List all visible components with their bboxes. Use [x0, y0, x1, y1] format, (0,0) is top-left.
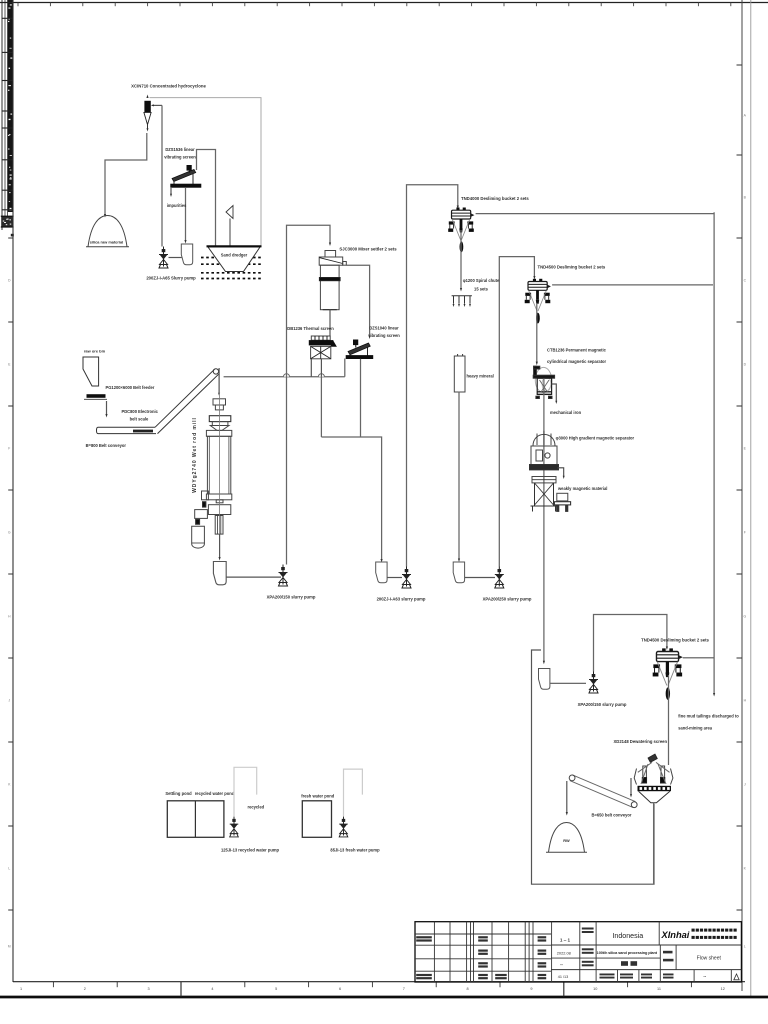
svg-text:9: 9	[530, 987, 532, 991]
svg-text:raw ore bin: raw ore bin	[84, 349, 106, 354]
svg-text:200ZJ-I-A63 slurry pump: 200ZJ-I-A63 slurry pump	[377, 597, 426, 602]
svg-text:Flow sheet: Flow sheet	[697, 956, 722, 962]
svg-text:15 sets: 15 sets	[474, 286, 489, 291]
svg-text:fresh water pond: fresh water pond	[301, 793, 334, 798]
svg-text:recycled water pond: recycled water pond	[195, 791, 235, 796]
svg-text:TND4500 Desliming bucket 2 se: TND4500 Desliming bucket 2 sets	[641, 638, 709, 643]
svg-text:B=800 Belt conveyor: B=800 Belt conveyor	[86, 443, 127, 448]
svg-text:200ZJ-I-A65 Slurry pump: 200ZJ-I-A65 Slurry pump	[146, 276, 196, 281]
svg-text:XInhai: XInhai	[661, 930, 690, 940]
svg-text:L: L	[744, 944, 746, 948]
svg-text:F: F	[8, 446, 10, 450]
svg-text:L: L	[8, 866, 10, 870]
svg-text:vibrating screen: vibrating screen	[368, 333, 400, 338]
svg-text:DZS1040 linear: DZS1040 linear	[369, 326, 399, 331]
svg-text:M: M	[8, 944, 11, 948]
svg-text:5: 5	[275, 987, 277, 991]
svg-text:SJC3000 Mixer settler 2 sets: SJC3000 Mixer settler 2 sets	[339, 247, 397, 252]
svg-text:DZS1536 linear: DZS1536 linear	[165, 147, 195, 152]
svg-text:CTB1236 Permanent magnetic: CTB1236 Permanent magnetic	[547, 347, 607, 352]
svg-text:XCIN710 Concentrated hydrocycl: XCIN710 Concentrated hydrocyclone	[131, 84, 206, 89]
svg-text:vibrating screen: vibrating screen	[164, 155, 196, 160]
svg-text:G: G	[743, 614, 746, 618]
svg-text:sand-mining area: sand-mining area	[678, 725, 713, 730]
svg-text:recycled: recycled	[247, 804, 264, 809]
svg-text:TND4500 Desliming bucket 2 set: TND4500 Desliming bucket 2 sets	[538, 265, 606, 270]
svg-text:silica raw material: silica raw material	[90, 240, 124, 245]
svg-text:G: G	[8, 530, 11, 534]
svg-text:belt scale: belt scale	[130, 417, 149, 422]
svg-text:12: 12	[721, 987, 725, 991]
svg-text:3: 3	[148, 987, 150, 991]
svg-text:1: 1	[20, 987, 22, 991]
svg-text:6: 6	[339, 987, 341, 991]
svg-text:impurities: impurities	[167, 203, 187, 208]
svg-text:XD2148 Dewatering screen: XD2148 Dewatering screen	[614, 739, 668, 744]
svg-text:7: 7	[403, 987, 405, 991]
svg-text:φ1200 Spiral chute: φ1200 Spiral chute	[463, 278, 500, 283]
svg-text:WDYg2740 Wet rod mill: WDYg2740 Wet rod mill	[192, 417, 198, 493]
svg-text:φ3000 High gradient magnetic s: φ3000 High gradient magnetic separator	[556, 435, 635, 440]
svg-text:41 /13: 41 /13	[558, 975, 569, 979]
svg-text:1 -- 1: 1 -- 1	[560, 937, 571, 942]
svg-text:F: F	[744, 530, 746, 534]
svg-text:cylindrical magnetic separator: cylindrical magnetic separator	[547, 359, 607, 364]
svg-text:XPA200/150 slurry pump: XPA200/150 slurry pump	[267, 595, 316, 600]
svg-text:XPA200/250 slurry pump: XPA200/250 slurry pump	[483, 597, 532, 602]
svg-text:100t/h silica sand processing: 100t/h silica sand processing plant	[597, 950, 658, 955]
svg-text:11: 11	[657, 987, 661, 991]
svg-text:B=650 belt conveyor: B=650 belt conveyor	[592, 813, 632, 818]
svg-text:2: 2	[84, 987, 86, 991]
svg-text:8: 8	[467, 987, 469, 991]
svg-text:DB1236 Thermal screen: DB1236 Thermal screen	[287, 326, 334, 331]
svg-text:10: 10	[593, 987, 597, 991]
svg-text:XPA200/150 slurry pump: XPA200/150 slurry pump	[578, 702, 627, 707]
svg-text:fine mud tailings discharged t: fine mud tailings discharged to	[678, 714, 739, 719]
svg-text:2022.08: 2022.08	[557, 950, 571, 955]
svg-text:85JI-13 fresh water pump: 85JI-13 fresh water pump	[330, 847, 380, 852]
svg-text:Settling pond: Settling pond	[165, 791, 192, 796]
svg-text:4: 4	[211, 987, 213, 991]
svg-text:PG1200×6000 Belt feeder: PG1200×6000 Belt feeder	[106, 385, 155, 390]
svg-text:Sand dredger: Sand dredger	[221, 253, 248, 258]
svg-text:heavy mineral: heavy mineral	[467, 374, 494, 379]
svg-text:mechanical iron: mechanical iron	[550, 410, 582, 415]
svg-text:Indonesia: Indonesia	[612, 932, 643, 940]
svg-text:125JI-13 recycled water pump: 125JI-13 recycled water pump	[221, 847, 280, 852]
svg-text:weakly magnetic material: weakly magnetic material	[557, 486, 607, 491]
svg-text:PDC800 Electronic: PDC800 Electronic	[122, 409, 159, 414]
svg-text:TND4000 Desliming bucket 2 set: TND4000 Desliming bucket 2 sets	[461, 196, 529, 201]
svg-text:RW: RW	[563, 838, 570, 843]
svg-text:J: J	[744, 782, 746, 786]
